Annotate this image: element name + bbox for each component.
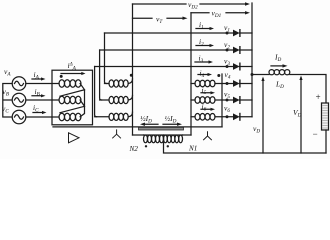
- svg-text:−: −: [312, 129, 318, 139]
- svg-text:N1: N1: [188, 145, 197, 153]
- svg-text:N2: N2: [129, 145, 139, 153]
- svg-text:+: +: [315, 92, 321, 102]
